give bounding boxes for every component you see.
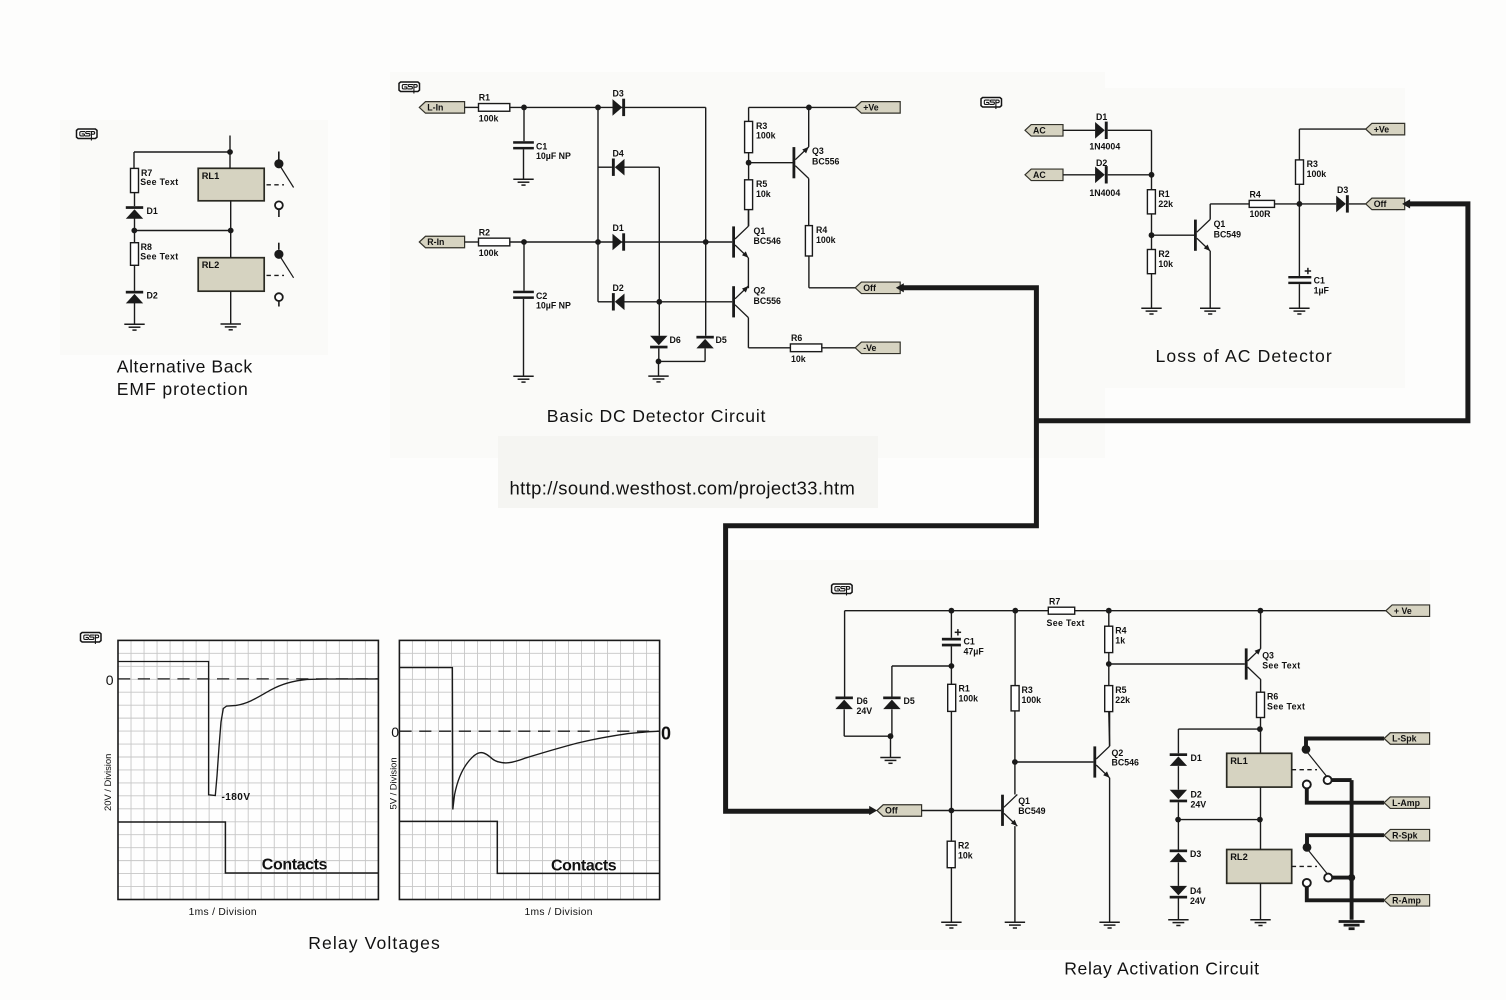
- svg-text:R1: R1: [479, 93, 490, 103]
- svg-text:10µF NP: 10µF NP: [536, 151, 571, 161]
- svg-text:100R: 100R: [1250, 209, 1272, 219]
- svg-text:100k: 100k: [1022, 695, 1042, 705]
- svg-text:Q3: Q3: [1262, 651, 1274, 661]
- svg-text:RL1: RL1: [202, 171, 220, 181]
- svg-text:Off: Off: [863, 283, 876, 293]
- svg-text:R3: R3: [1307, 159, 1318, 169]
- svg-text:Relay Voltages: Relay Voltages: [308, 933, 441, 953]
- svg-text:1µF: 1µF: [1314, 285, 1330, 295]
- svg-text:See Text: See Text: [1047, 618, 1085, 628]
- svg-text:See Text: See Text: [1262, 661, 1300, 671]
- svg-text:R6: R6: [1267, 692, 1278, 702]
- svg-text:100k: 100k: [1307, 169, 1327, 179]
- svg-text:Alternative Back: Alternative Back: [117, 357, 253, 377]
- svg-text:L-Spk: L-Spk: [1392, 734, 1417, 744]
- svg-text:Q1: Q1: [1018, 796, 1030, 806]
- svg-text:R1: R1: [1158, 189, 1169, 199]
- svg-text:D2: D2: [1096, 158, 1107, 168]
- svg-text:BC546: BC546: [754, 236, 781, 246]
- svg-text:R3: R3: [1022, 685, 1033, 695]
- svg-text:D3: D3: [613, 89, 624, 99]
- svg-text:AC: AC: [1033, 126, 1046, 136]
- svg-text:See Text: See Text: [140, 177, 178, 187]
- svg-text:R4: R4: [1250, 190, 1261, 200]
- svg-text:1ms / Division: 1ms / Division: [189, 907, 257, 918]
- svg-text:Off: Off: [1374, 199, 1387, 209]
- svg-text:R2: R2: [958, 841, 969, 851]
- svg-text:Relay Activation Circuit: Relay Activation Circuit: [1064, 958, 1260, 978]
- svg-text:D1: D1: [613, 223, 624, 233]
- svg-text:C1: C1: [536, 141, 547, 151]
- svg-text:Contacts: Contacts: [262, 857, 328, 874]
- svg-text:10µF NP: 10µF NP: [536, 301, 571, 311]
- svg-text:D2: D2: [1191, 790, 1202, 800]
- svg-text:Contacts: Contacts: [551, 858, 617, 875]
- svg-text:0: 0: [106, 672, 114, 688]
- svg-text:1N4004: 1N4004: [1089, 142, 1120, 152]
- svg-text:R2: R2: [1158, 249, 1169, 259]
- svg-text:D3: D3: [1337, 185, 1348, 195]
- svg-text:+Ve: +Ve: [863, 103, 879, 113]
- svg-text:See Text: See Text: [140, 251, 178, 261]
- svg-text:10k: 10k: [958, 851, 973, 861]
- svg-text:D1: D1: [147, 206, 158, 216]
- svg-text:D1: D1: [1191, 753, 1202, 763]
- svg-text:Q3: Q3: [812, 146, 824, 156]
- svg-text:L-In: L-In: [427, 103, 443, 113]
- svg-text:Q1: Q1: [754, 226, 766, 236]
- svg-text:1N4004: 1N4004: [1089, 188, 1120, 198]
- svg-text:R4: R4: [816, 225, 827, 235]
- svg-text:D2: D2: [147, 291, 158, 301]
- svg-text:-Ve: -Ve: [863, 343, 876, 353]
- svg-text:D6: D6: [670, 335, 681, 345]
- svg-text:BC546: BC546: [1112, 757, 1139, 767]
- svg-text:R-Amp: R-Amp: [1392, 896, 1421, 906]
- svg-text:D4: D4: [613, 148, 624, 158]
- svg-text:D3: D3: [1190, 849, 1201, 859]
- svg-text:RL2: RL2: [1230, 852, 1248, 862]
- svg-text:AC: AC: [1033, 170, 1046, 180]
- svg-text:D2: D2: [613, 283, 624, 293]
- svg-text:24V: 24V: [1191, 800, 1207, 810]
- svg-text:22k: 22k: [1158, 199, 1173, 209]
- svg-text:BC549: BC549: [1018, 806, 1045, 816]
- svg-text:Basic DC Detector Circuit: Basic DC Detector Circuit: [547, 406, 766, 426]
- svg-text:0: 0: [661, 724, 671, 744]
- svg-text:10k: 10k: [791, 354, 806, 364]
- svg-text:1ms / Division: 1ms / Division: [525, 907, 593, 918]
- svg-text:Off: Off: [885, 806, 898, 816]
- svg-text:100k: 100k: [816, 235, 836, 245]
- svg-text:EMF protection: EMF protection: [117, 379, 249, 399]
- svg-text:R-In: R-In: [427, 237, 444, 247]
- svg-text:20V / Division: 20V / Division: [102, 754, 113, 811]
- svg-text:24V: 24V: [857, 706, 873, 716]
- svg-text:C1: C1: [1314, 275, 1325, 285]
- svg-text:24V: 24V: [1190, 896, 1206, 906]
- svg-text:R1: R1: [959, 684, 970, 694]
- svg-text:BC556: BC556: [812, 156, 839, 166]
- svg-text:100k: 100k: [959, 694, 979, 704]
- svg-text:BC556: BC556: [754, 296, 781, 306]
- svg-text:1k: 1k: [1115, 636, 1125, 646]
- svg-text:R5: R5: [1115, 685, 1126, 695]
- svg-text:R7: R7: [1049, 597, 1060, 607]
- svg-text:+Ve: +Ve: [1374, 124, 1390, 134]
- svg-text:R4: R4: [1115, 626, 1126, 636]
- svg-text:D5: D5: [716, 335, 727, 345]
- svg-text:RL2: RL2: [202, 260, 220, 270]
- svg-text:http://sound.westhost.com/proj: http://sound.westhost.com/project33.htm: [510, 477, 856, 498]
- svg-text:R2: R2: [479, 227, 490, 237]
- svg-text:D6: D6: [857, 696, 868, 706]
- svg-text:47µF: 47µF: [964, 646, 985, 656]
- svg-text:100k: 100k: [479, 248, 499, 258]
- svg-text:R5: R5: [756, 179, 767, 189]
- svg-text:10k: 10k: [756, 189, 771, 199]
- svg-text:L-Amp: L-Amp: [1392, 798, 1420, 808]
- svg-text:Q2: Q2: [754, 286, 766, 296]
- svg-text:R6: R6: [791, 333, 802, 343]
- svg-text:R3: R3: [756, 121, 767, 131]
- svg-text:D1: D1: [1096, 112, 1107, 122]
- svg-text:C1: C1: [964, 636, 975, 646]
- svg-text:R-Spk: R-Spk: [1392, 830, 1418, 840]
- svg-text:100k: 100k: [479, 114, 499, 124]
- svg-text:C2: C2: [536, 291, 547, 301]
- svg-text:0: 0: [391, 724, 399, 740]
- svg-text:D5: D5: [904, 696, 915, 706]
- svg-text:Loss of AC Detector: Loss of AC Detector: [1156, 346, 1333, 366]
- svg-text:BC549: BC549: [1214, 230, 1241, 240]
- svg-text:-180V: -180V: [222, 792, 251, 803]
- svg-text:100k: 100k: [756, 131, 776, 141]
- svg-text:RL1: RL1: [1230, 756, 1248, 766]
- svg-text:See Text: See Text: [1267, 702, 1305, 712]
- svg-text:D4: D4: [1190, 886, 1201, 896]
- svg-text:Q1: Q1: [1214, 219, 1226, 229]
- svg-text:10k: 10k: [1158, 259, 1173, 269]
- svg-text:5V / Division: 5V / Division: [388, 757, 399, 809]
- svg-text:+ Ve: + Ve: [1394, 606, 1412, 616]
- svg-text:22k: 22k: [1115, 695, 1130, 705]
